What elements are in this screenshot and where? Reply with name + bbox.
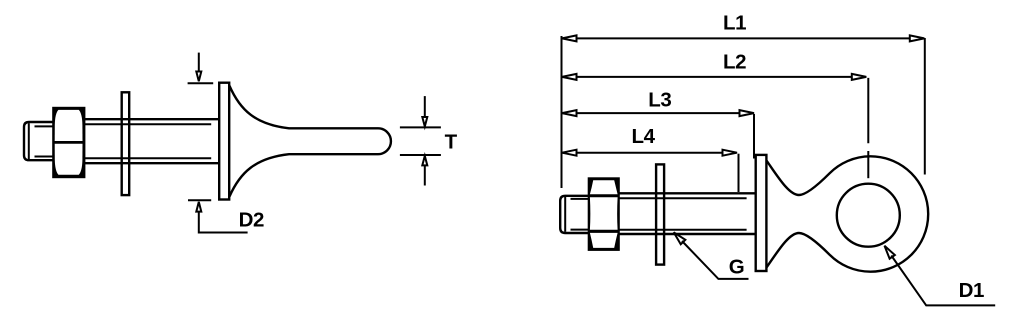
bolt threaded end cap (right view) xyxy=(560,196,589,233)
svg-text:L1: L1 xyxy=(723,12,746,35)
collar top reference arrow (left view) xyxy=(188,53,214,84)
svg-text:T: T xyxy=(445,130,458,153)
flared shank and rounded stem (left view) xyxy=(229,86,391,197)
eye inner hole circle xyxy=(837,184,900,247)
thread root lines (left view) xyxy=(85,124,211,158)
dimension L1 line with arrows xyxy=(562,35,924,41)
flared neck and eye ring outer profile xyxy=(767,156,929,271)
thread leader arrow G xyxy=(674,232,749,279)
washer (right view) xyxy=(656,164,664,264)
washer (left view) xyxy=(122,92,130,195)
hex nut (left view, two faces) xyxy=(52,107,85,178)
svg-text:L4: L4 xyxy=(632,125,656,148)
shank outer thread lines (right view) xyxy=(619,193,757,234)
dimension L4 line with arrows xyxy=(562,150,739,192)
L2 extension centre line to eye xyxy=(867,78,869,178)
dimension L3 line with arrows xyxy=(562,110,754,158)
thread root lines (right view) xyxy=(619,198,747,230)
collar flange (right view) xyxy=(756,155,767,271)
right extension line at eye edge xyxy=(924,38,926,175)
svg-text:L3: L3 xyxy=(648,89,671,112)
dimension D2 leader and arrow xyxy=(188,200,248,232)
hex nut (right view, three faces) xyxy=(588,177,620,251)
svg-text:D1: D1 xyxy=(959,279,984,302)
shank outer thread lines (left view) xyxy=(85,119,220,163)
dimension T lines xyxy=(400,96,441,185)
eye diameter leader arrow D1 xyxy=(885,246,996,306)
bolt threaded end cap (left view) xyxy=(24,122,53,160)
dimension L2 line with arrows xyxy=(562,74,866,80)
left extension line (overall length datum) xyxy=(561,36,563,188)
collar flange (left view) xyxy=(219,83,229,200)
svg-text:D2: D2 xyxy=(239,208,264,231)
svg-text:G: G xyxy=(729,256,745,279)
svg-text:L2: L2 xyxy=(723,50,746,73)
